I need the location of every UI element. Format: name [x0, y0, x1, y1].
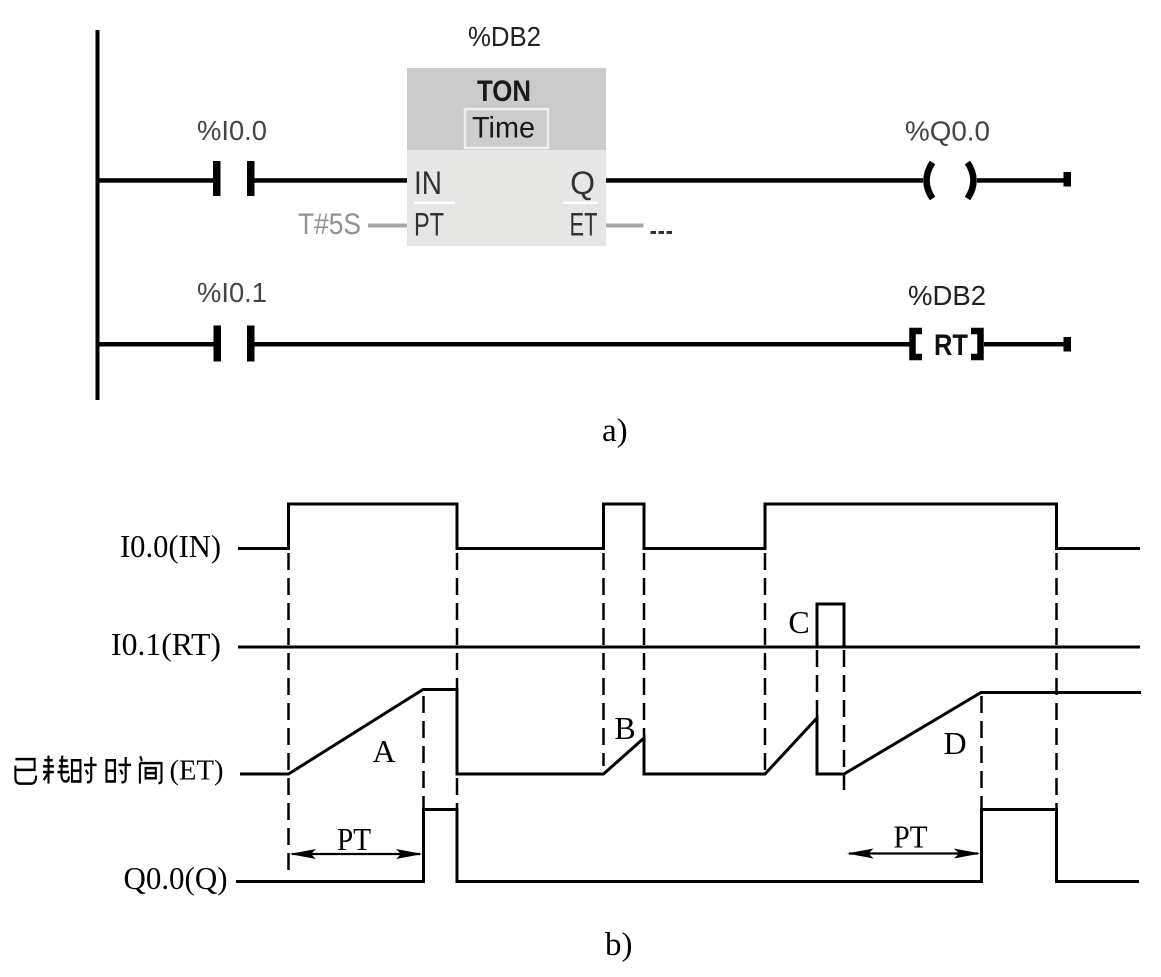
- dash t1: [287, 553, 290, 871]
- char yi3: [15, 759, 36, 783]
- gray wire ET out: [606, 224, 644, 228]
- PT arrow 1: [290, 821, 423, 859]
- svg-text:b): b): [605, 927, 633, 963]
- separator under Q: [563, 202, 598, 205]
- wire rung1 left: [96, 178, 214, 183]
- waveform RT pulse: [817, 604, 844, 647]
- dash t7: [816, 650, 819, 719]
- svg-text:(ET): (ET): [170, 756, 224, 787]
- contact %I0.0 bar1: [213, 161, 221, 196]
- dash t5: [643, 553, 646, 737]
- svg-text:a): a): [602, 413, 628, 449]
- wire coil to end: [977, 178, 1066, 183]
- wire rung2 left: [96, 342, 214, 347]
- svg-text:PT: PT: [414, 207, 444, 243]
- svg-text:D: D: [943, 725, 966, 761]
- gray wire T#5S to PT: [368, 224, 407, 228]
- RT bracket right: [971, 331, 981, 357]
- svg-text:TON: TON: [477, 75, 531, 108]
- RT bracket left: [913, 331, 923, 357]
- waveform ET: [240, 690, 1141, 775]
- wire Q to coil: [606, 178, 923, 183]
- svg-text:I0.1(RT): I0.1(RT): [111, 626, 221, 662]
- svg-text:IN: IN: [414, 165, 442, 201]
- wire RT coil to end: [984, 342, 1066, 347]
- svg-text:%DB2: %DB2: [468, 21, 541, 52]
- wire rung1 to block: [254, 178, 407, 183]
- dash t2: [422, 696, 425, 809]
- coil right paren: [968, 163, 974, 199]
- Time type box: [465, 109, 548, 148]
- waveform IN: [238, 504, 1140, 549]
- svg-text:A: A: [372, 733, 395, 769]
- rung2 end stop: [1064, 337, 1072, 352]
- svg-text:Time: Time: [472, 112, 535, 145]
- waveform RT baseline: [238, 646, 1140, 649]
- TON block header: [407, 68, 606, 150]
- dash t9: [980, 696, 983, 809]
- char shi2 b: [107, 757, 132, 782]
- separator under IN: [414, 202, 455, 205]
- dash t8: [843, 650, 846, 790]
- dash t3: [456, 553, 459, 810]
- char jian1: [140, 756, 162, 783]
- char shi2 a: [72, 757, 97, 782]
- left power rail: [96, 30, 100, 400]
- svg-text:I0.0(IN): I0.0(IN): [120, 528, 221, 564]
- svg-text:Q: Q: [570, 165, 595, 201]
- svg-text:PT: PT: [337, 821, 371, 857]
- svg-text:%Q0.0: %Q0.0: [905, 116, 990, 147]
- CJK 已耗时时间 drawn as paths: [15, 756, 161, 784]
- dots after ET: [651, 231, 657, 234]
- svg-text:T#5S: T#5S: [298, 208, 361, 241]
- rung1 end stop: [1064, 172, 1072, 187]
- svg-text:RT: RT: [934, 329, 968, 362]
- waveform Q: [236, 810, 1139, 882]
- svg-text:%DB2: %DB2: [908, 280, 986, 311]
- char hao4: [43, 756, 69, 784]
- svg-text:%I0.1: %I0.1: [197, 277, 267, 308]
- coil left paren: [927, 163, 933, 199]
- dash t6: [764, 553, 767, 773]
- PT arrow 2: [847, 819, 981, 859]
- dashed verticals: [289, 553, 1057, 871]
- contact %I0.1 bar1: [214, 326, 222, 362]
- svg-text:Q0.0(Q): Q0.0(Q): [124, 860, 228, 896]
- svg-text:%I0.0: %I0.0: [197, 115, 267, 146]
- TON block body: [407, 150, 606, 246]
- contact %I0.1 bar2: [247, 326, 255, 362]
- contact %I0.0 bar2: [247, 161, 255, 196]
- dash t10: [1055, 553, 1058, 809]
- svg-text:ET: ET: [570, 207, 598, 243]
- svg-text:PT: PT: [894, 819, 928, 855]
- wire rung2 to RT coil: [254, 342, 910, 347]
- svg-text:C: C: [788, 604, 809, 640]
- dash t4: [602, 553, 605, 766]
- svg-text:B: B: [614, 710, 635, 746]
